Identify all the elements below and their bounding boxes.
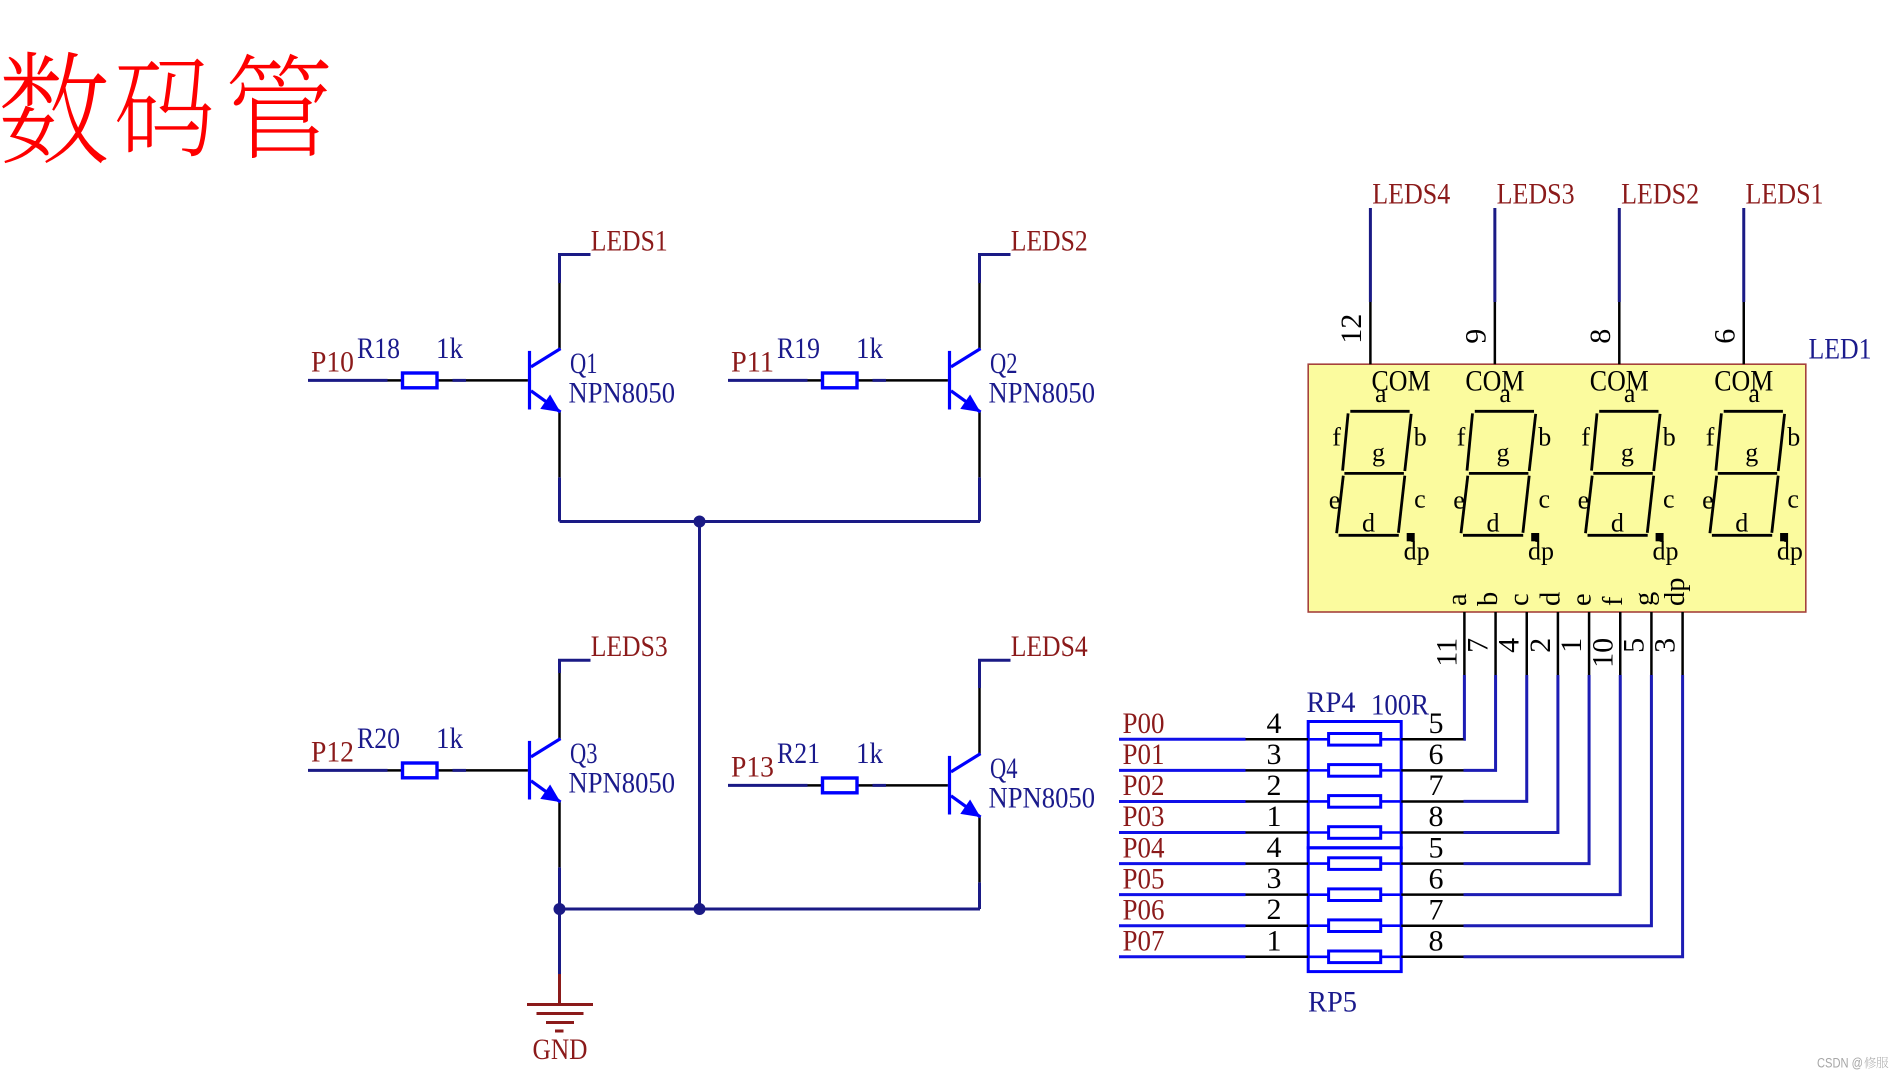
svg-text:d: d [1611, 508, 1624, 537]
svg-text:LEDS1: LEDS1 [1746, 177, 1824, 210]
transistor Q1 NPN8050 [466, 283, 675, 477]
7-segment digit 3 [1586, 411, 1661, 535]
RP element P03 pin 1 to 8 [1246, 827, 1464, 839]
svg-text:dp: dp [1653, 537, 1679, 566]
COM pin 8 [1618, 302, 1621, 364]
svg-text:a: a [1442, 593, 1473, 606]
wire P00 to RP [1119, 738, 1246, 741]
segment pin g (5) [1650, 612, 1653, 675]
wire LEDS1 to COM pin [1742, 208, 1745, 302]
7-segment digit 4 [1710, 411, 1785, 535]
svg-text:1k: 1k [856, 737, 883, 770]
svg-text:10: 10 [1586, 638, 1619, 668]
title text 数码管 [2, 52, 328, 164]
svg-text:1k: 1k [856, 332, 883, 365]
COM pin 9 [1494, 302, 1497, 364]
svg-text:P13: P13 [731, 751, 774, 784]
svg-text:3: 3 [1267, 862, 1282, 895]
svg-text:f: f [1581, 423, 1590, 452]
svg-text:g: g [1621, 438, 1634, 467]
svg-text:Q4: Q4 [990, 752, 1018, 785]
transistor Q3 NPN8050 [466, 673, 675, 867]
wire P02 to RP [1119, 800, 1246, 803]
svg-text:e: e [1567, 593, 1598, 606]
svg-text:c: c [1414, 484, 1426, 513]
svg-text:5: 5 [1617, 638, 1650, 653]
svg-text:8: 8 [1429, 924, 1444, 957]
resistor R21 1k [777, 737, 883, 793]
svg-text:7: 7 [1462, 638, 1495, 653]
svg-text:COM: COM [1590, 364, 1649, 397]
svg-text:g: g [1497, 438, 1510, 467]
junction node top [694, 516, 706, 528]
svg-text:2: 2 [1267, 893, 1282, 926]
svg-text:b: b [1663, 423, 1676, 452]
RP element P06 pin 2 to 7 [1246, 920, 1464, 932]
svg-text:LEDS3: LEDS3 [591, 630, 668, 663]
junction node bottom center [694, 903, 706, 915]
watermark CSDN [1817, 1056, 1888, 1071]
svg-text:g: g [1745, 438, 1758, 467]
svg-text:2: 2 [1524, 638, 1557, 653]
svg-text:c: c [1787, 484, 1799, 513]
wire P05 to RP [1119, 893, 1246, 896]
RP element P01 pin 3 to 6 [1246, 765, 1464, 777]
resistor R20 1k [357, 722, 463, 778]
svg-text:g: g [1629, 592, 1660, 606]
svg-text:a: a [1499, 379, 1511, 408]
svg-text:d: d [1735, 508, 1748, 537]
svg-text:b: b [1473, 592, 1504, 606]
svg-text:g: g [1372, 438, 1385, 467]
wire Q1 emitter down [558, 477, 561, 521]
svg-text:a: a [1375, 379, 1387, 408]
svg-text:4: 4 [1267, 831, 1282, 864]
junction node GND tap [554, 903, 566, 915]
segment pin dp (3) [1681, 612, 1684, 675]
wire emitter rail bottom (Q3-Q4) [560, 908, 981, 911]
svg-text:d: d [1535, 592, 1566, 606]
svg-text:R19: R19 [777, 332, 820, 365]
svg-text:R21: R21 [777, 737, 820, 770]
wire Q4 collector to LEDS4 [980, 660, 1011, 688]
wire segment g to RP [1464, 675, 1652, 926]
wire segment b to RP [1464, 675, 1496, 770]
wire segment a to RP [1462, 675, 1466, 739]
wire Q2 collector to LEDS2 [980, 255, 1011, 284]
svg-text:b: b [1787, 423, 1800, 452]
svg-text:P06: P06 [1123, 893, 1165, 926]
svg-text:LED1: LED1 [1809, 333, 1872, 366]
svg-text:b: b [1414, 423, 1427, 452]
svg-text:GND: GND [533, 1033, 588, 1066]
svg-text:3: 3 [1649, 638, 1682, 653]
segment pin e (1) [1588, 612, 1591, 675]
svg-text:d: d [1487, 508, 1500, 537]
svg-text:7: 7 [1429, 893, 1444, 926]
svg-text:f: f [1457, 423, 1466, 452]
svg-text:c: c [1539, 484, 1551, 513]
svg-text:NPN8050: NPN8050 [569, 377, 676, 410]
svg-text:P10: P10 [311, 346, 354, 379]
svg-text:a: a [1748, 379, 1760, 408]
wire P11 to R19 [728, 379, 808, 382]
wire P12 to R20 [308, 769, 388, 772]
wire Q1 collector to LEDS1 [560, 255, 591, 284]
RP element P00 pin 4 to 5 [1246, 734, 1464, 746]
svg-text:100R: 100R [1371, 689, 1429, 722]
svg-text:P05: P05 [1123, 862, 1165, 895]
svg-text:e: e [1329, 486, 1341, 515]
svg-text:2: 2 [1267, 769, 1282, 802]
svg-text:LEDS1: LEDS1 [591, 224, 668, 257]
RP element P05 pin 3 to 6 [1246, 889, 1464, 901]
svg-text:6: 6 [1429, 862, 1444, 895]
RP element P04 pin 4 to 5 [1246, 858, 1464, 870]
wire P03 to RP [1119, 831, 1246, 834]
svg-text:1: 1 [1555, 638, 1588, 653]
svg-text:LEDS2: LEDS2 [1011, 224, 1088, 257]
svg-text:COM: COM [1465, 364, 1524, 397]
wire R20 to Q3 base [453, 769, 467, 772]
svg-text:CSDN @: CSDN @ [1817, 1056, 1863, 1071]
wire LEDS4 to COM pin [1369, 208, 1372, 302]
svg-text:a: a [1624, 379, 1636, 408]
svg-text:e: e [1578, 486, 1590, 515]
RP element P07 pin 1 to 8 [1246, 951, 1464, 963]
wire Q2 emitter down [978, 477, 981, 521]
wire LEDS2 to COM pin [1618, 208, 1621, 302]
wire Q3 emitter down [558, 867, 561, 909]
transistor Q4 NPN8050 [886, 688, 1095, 882]
svg-text:P04: P04 [1123, 831, 1165, 864]
svg-text:1: 1 [1267, 924, 1282, 957]
svg-text:f: f [1332, 423, 1341, 452]
svg-text:1k: 1k [436, 722, 463, 755]
segment pin b (7) [1494, 612, 1497, 675]
svg-text:e: e [1702, 486, 1714, 515]
svg-text:4: 4 [1267, 707, 1282, 740]
7-segment digit 2 [1461, 411, 1536, 535]
wire P07 to RP [1119, 955, 1246, 958]
svg-text:8: 8 [1429, 800, 1444, 833]
svg-text:9: 9 [1459, 329, 1492, 344]
svg-text:11: 11 [1430, 638, 1463, 667]
COM pin 12 [1369, 302, 1372, 364]
COM pin 6 [1743, 302, 1746, 364]
svg-text:d: d [1362, 508, 1375, 537]
wire R18 to Q1 base [453, 379, 467, 382]
transistor Q2 NPN8050 [886, 283, 1095, 477]
wire center vertical [698, 522, 701, 910]
wire P06 to RP [1119, 924, 1246, 927]
resistor R18 1k [357, 332, 463, 388]
wire segment dp to RP [1464, 675, 1683, 957]
segment pin f (10) [1619, 612, 1622, 675]
wire segment f to RP [1464, 675, 1621, 895]
svg-text:P07: P07 [1123, 924, 1165, 957]
svg-text:dp: dp [1660, 578, 1691, 607]
svg-text:LEDS4: LEDS4 [1011, 630, 1088, 663]
svg-text:dp: dp [1404, 537, 1430, 566]
svg-text:1k: 1k [436, 332, 463, 365]
svg-text:P11: P11 [731, 346, 774, 379]
wire segment e to RP [1464, 675, 1590, 864]
svg-text:Q1: Q1 [570, 347, 598, 380]
svg-text:12: 12 [1335, 314, 1368, 344]
svg-text:f: f [1598, 596, 1629, 606]
svg-text:NPN8050: NPN8050 [569, 767, 676, 800]
svg-text:5: 5 [1429, 831, 1444, 864]
svg-text:R18: R18 [357, 332, 400, 365]
svg-text:Q2: Q2 [990, 347, 1018, 380]
ground GND [527, 909, 593, 1066]
display LED1 body [1308, 364, 1806, 612]
segment pin a (11) [1463, 612, 1466, 675]
7-segment digit 1 [1337, 411, 1412, 535]
wire P04 to RP [1119, 862, 1246, 865]
wire R21 to Q4 base [873, 784, 887, 787]
svg-text:dp: dp [1528, 537, 1554, 566]
svg-text:4: 4 [1493, 638, 1526, 653]
svg-text:f: f [1706, 423, 1715, 452]
svg-text:6: 6 [1429, 738, 1444, 771]
wire P10 to R18 [308, 379, 388, 382]
wire segment c to RP [1464, 675, 1527, 801]
svg-text:Q3: Q3 [570, 737, 598, 770]
wire Q4 emitter down [978, 882, 981, 909]
svg-text:P12: P12 [311, 736, 354, 769]
resistor network RP5 body [1308, 848, 1401, 972]
svg-text:8: 8 [1584, 329, 1617, 344]
wire R19 to Q2 base [873, 379, 887, 382]
wire segment d to RP [1464, 675, 1558, 833]
svg-text:3: 3 [1267, 738, 1282, 771]
svg-text:c: c [1504, 593, 1535, 606]
svg-text:P00: P00 [1123, 707, 1165, 740]
resistor network RP4 body [1308, 722, 1401, 848]
svg-text:RP5: RP5 [1308, 986, 1357, 1019]
svg-text:e: e [1453, 486, 1465, 515]
wire emitter rail top (Q1-Q2) [560, 520, 981, 523]
svg-text:LEDS2: LEDS2 [1621, 177, 1699, 210]
wire LEDS3 to COM pin [1493, 208, 1496, 302]
svg-text:P03: P03 [1123, 800, 1165, 833]
svg-text:RP4: RP4 [1307, 686, 1356, 719]
svg-text:NPN8050: NPN8050 [989, 782, 1096, 815]
wire P01 to RP [1119, 769, 1246, 772]
RP element P02 pin 2 to 7 [1246, 796, 1464, 808]
svg-text:P02: P02 [1123, 769, 1165, 802]
segment pin c (4) [1525, 612, 1528, 675]
svg-text:LEDS3: LEDS3 [1497, 177, 1575, 210]
wire Q3 collector to LEDS3 [560, 660, 591, 673]
wire P13 to R21 [728, 784, 808, 787]
svg-text:c: c [1663, 484, 1675, 513]
svg-text:7: 7 [1429, 769, 1444, 802]
svg-text:P01: P01 [1123, 738, 1165, 771]
resistor R19 1k [777, 332, 883, 388]
svg-text:b: b [1538, 423, 1551, 452]
svg-text:dp: dp [1777, 537, 1803, 566]
svg-text:COM: COM [1714, 364, 1773, 397]
svg-text:NPN8050: NPN8050 [989, 377, 1096, 410]
svg-text:5: 5 [1429, 707, 1444, 740]
svg-text:R20: R20 [357, 722, 400, 755]
svg-text:LEDS4: LEDS4 [1372, 177, 1450, 210]
segment pin d (2) [1557, 612, 1560, 675]
svg-text:6: 6 [1708, 329, 1741, 344]
svg-text:1: 1 [1267, 800, 1282, 833]
